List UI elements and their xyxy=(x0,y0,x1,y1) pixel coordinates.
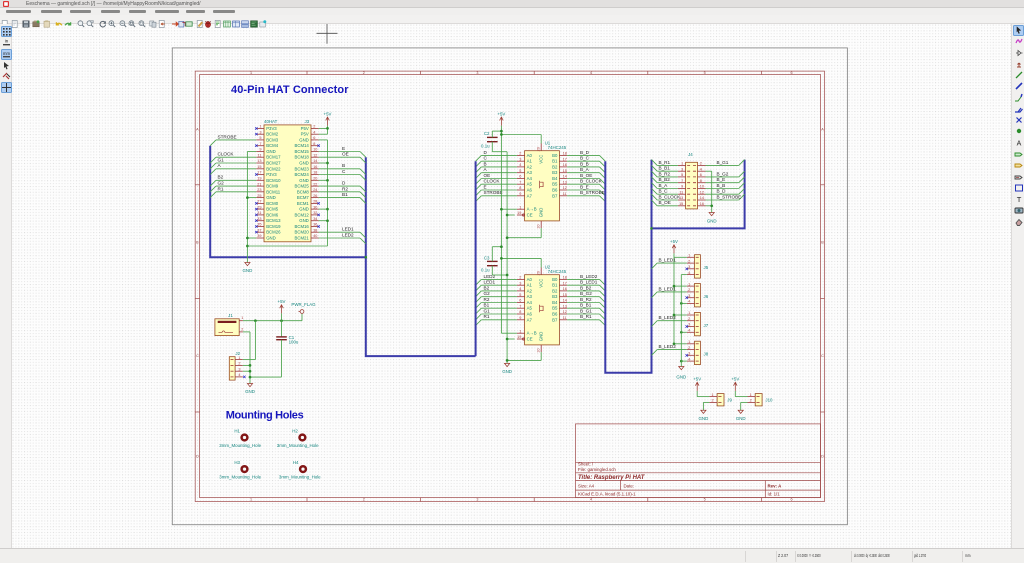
svg-text:BCM8: BCM8 xyxy=(297,189,310,194)
svg-text:GND: GND xyxy=(243,268,253,273)
svg-text:18: 18 xyxy=(563,275,567,279)
svg-text:5: 5 xyxy=(704,497,706,501)
svg-text:G2: G2 xyxy=(484,291,491,296)
svg-text:36: 36 xyxy=(313,222,317,226)
svg-text:18: 18 xyxy=(313,170,317,174)
svg-text:B2: B2 xyxy=(484,285,490,290)
svg-text:74HC245: 74HC245 xyxy=(548,268,567,273)
svg-text:P3V3: P3V3 xyxy=(266,125,277,130)
svg-text:B2: B2 xyxy=(218,174,224,179)
svg-text:BCM27: BCM27 xyxy=(266,160,281,165)
svg-text:C: C xyxy=(821,354,824,358)
svg-text:2: 2 xyxy=(363,497,365,501)
svg-text:1: 1 xyxy=(250,497,252,501)
svg-text:P3V3: P3V3 xyxy=(266,172,277,177)
svg-text:A7: A7 xyxy=(527,193,533,198)
svg-text:18: 18 xyxy=(563,151,567,155)
svg-text:B1: B1 xyxy=(342,192,348,197)
svg-text:KiCad E.D.A. kicad (5.1.10)-1: KiCad E.D.A. kicad (5.1.10)-1 xyxy=(578,491,636,496)
svg-text:A: A xyxy=(1016,140,1021,147)
svg-text:7: 7 xyxy=(519,180,521,184)
svg-text:A1: A1 xyxy=(527,158,533,163)
svg-text:33: 33 xyxy=(257,216,261,220)
svg-text:BCM18: BCM18 xyxy=(294,154,309,159)
svg-text:3: 3 xyxy=(259,130,261,134)
svg-text:2: 2 xyxy=(700,161,702,165)
svg-text:30: 30 xyxy=(313,205,317,209)
svg-text:4: 4 xyxy=(519,163,521,167)
svg-text:B_A: B_A xyxy=(580,167,590,172)
svg-text:5: 5 xyxy=(519,168,521,172)
svg-text:BCM9: BCM9 xyxy=(266,183,279,188)
svg-text:9: 9 xyxy=(519,316,521,320)
svg-text:G2: G2 xyxy=(218,180,225,185)
svg-text:GND: GND xyxy=(266,235,276,240)
svg-text:VCC: VCC xyxy=(539,154,544,163)
svg-text:LED2: LED2 xyxy=(484,273,496,278)
svg-text:CE: CE xyxy=(527,336,533,341)
svg-text:GND: GND xyxy=(266,149,276,154)
svg-text:H1: H1 xyxy=(234,428,240,433)
svg-text:B0: B0 xyxy=(552,276,558,281)
svg-text:23: 23 xyxy=(257,188,261,192)
svg-text:13: 13 xyxy=(257,159,261,163)
svg-text:B_CLOCK: B_CLOCK xyxy=(659,194,682,199)
svg-text:19: 19 xyxy=(517,211,521,215)
svg-text:A0: A0 xyxy=(527,276,533,281)
svg-text:Date:: Date: xyxy=(624,483,635,488)
svg-text:6: 6 xyxy=(790,497,792,501)
svg-text:B6: B6 xyxy=(552,311,558,316)
svg-text:2: 2 xyxy=(688,345,690,349)
svg-text:+5V: +5V xyxy=(670,239,678,244)
svg-text:27: 27 xyxy=(257,199,261,203)
svg-text:GND: GND xyxy=(299,218,309,223)
svg-text:H4: H4 xyxy=(293,459,299,464)
svg-text:A4: A4 xyxy=(527,300,533,305)
svg-text:37: 37 xyxy=(257,228,261,232)
svg-text:74HC245: 74HC245 xyxy=(548,144,567,149)
svg-text:1: 1 xyxy=(688,340,690,344)
svg-text:B_C: B_C xyxy=(659,188,669,193)
svg-text:C: C xyxy=(196,354,199,358)
svg-text:B_CLOCK: B_CLOCK xyxy=(580,178,603,183)
svg-text:B: B xyxy=(484,161,487,166)
svg-text:LED1: LED1 xyxy=(342,226,354,231)
svg-text:A1: A1 xyxy=(527,282,533,287)
svg-text:BCM10: BCM10 xyxy=(266,177,281,182)
svg-text:A3: A3 xyxy=(527,294,533,299)
svg-text:B_B: B_B xyxy=(580,161,589,166)
svg-text:29: 29 xyxy=(257,205,261,209)
svg-text:B_D: B_D xyxy=(580,149,590,154)
svg-text:BCM25: BCM25 xyxy=(294,183,309,188)
svg-text:1: 1 xyxy=(519,205,521,209)
svg-text:11: 11 xyxy=(258,153,262,157)
svg-text:BCM22: BCM22 xyxy=(266,166,281,171)
svg-text:J7: J7 xyxy=(704,322,709,327)
svg-text:2: 2 xyxy=(519,275,521,279)
svg-text:mm: mm xyxy=(3,50,10,55)
svg-text:H3: H3 xyxy=(234,459,240,464)
svg-text:10: 10 xyxy=(536,348,540,352)
svg-text:0.1u: 0.1u xyxy=(481,267,490,272)
svg-text:40: 40 xyxy=(313,234,317,238)
svg-text:14: 14 xyxy=(563,298,567,302)
svg-text:B_B2: B_B2 xyxy=(659,177,671,182)
svg-text:4: 4 xyxy=(313,130,315,134)
svg-text:2: 2 xyxy=(519,151,521,155)
svg-text:BCM3: BCM3 xyxy=(266,137,279,142)
svg-text:13: 13 xyxy=(563,304,567,308)
svg-text:B_R1: B_R1 xyxy=(659,159,671,164)
svg-text:4: 4 xyxy=(590,70,592,74)
svg-text:A→B: A→B xyxy=(527,206,537,211)
svg-text:2: 2 xyxy=(313,124,315,128)
svg-text:B4: B4 xyxy=(552,300,558,305)
svg-text:VCC: VCC xyxy=(539,278,544,287)
svg-text:B_D: B_D xyxy=(717,188,727,193)
svg-text:25: 25 xyxy=(257,193,261,197)
svg-text:13: 13 xyxy=(563,180,567,184)
svg-text:A2: A2 xyxy=(527,164,533,169)
svg-text:File: gamingled.sch: File: gamingled.sch xyxy=(578,466,616,471)
svg-text:+5V: +5V xyxy=(731,376,739,381)
svg-text:B_G1: B_G1 xyxy=(717,159,729,164)
svg-text:10: 10 xyxy=(700,184,704,188)
svg-text:3: 3 xyxy=(688,351,690,355)
svg-text:A2: A2 xyxy=(527,288,533,293)
svg-text:B_B2: B_B2 xyxy=(580,285,592,290)
svg-text:GND: GND xyxy=(676,374,686,379)
svg-text:Size: A4: Size: A4 xyxy=(578,483,595,488)
svg-text:7: 7 xyxy=(681,178,683,182)
svg-text:B_G1: B_G1 xyxy=(580,308,592,313)
svg-text:A4: A4 xyxy=(527,176,533,181)
svg-text:20: 20 xyxy=(313,176,317,180)
svg-text:B_LED1: B_LED1 xyxy=(659,286,677,291)
svg-text:B3: B3 xyxy=(552,294,558,299)
svg-text:B_LED2: B_LED2 xyxy=(580,273,598,278)
svg-text:BCM15: BCM15 xyxy=(294,149,309,154)
svg-text:GND: GND xyxy=(736,415,746,420)
svg-text:39: 39 xyxy=(257,234,261,238)
svg-text:G1: G1 xyxy=(218,157,225,162)
svg-text:+5V: +5V xyxy=(497,111,505,116)
svg-text:BCM1: BCM1 xyxy=(297,200,310,205)
svg-text:OE: OE xyxy=(484,172,491,177)
svg-text:2: 2 xyxy=(688,316,690,320)
svg-text:B_R1: B_R1 xyxy=(580,314,592,319)
svg-text:B5: B5 xyxy=(552,305,558,310)
svg-text:Title: Raspberry Pi HAT: Title: Raspberry Pi HAT xyxy=(578,474,646,480)
svg-text:16: 16 xyxy=(313,165,317,169)
svg-text:6: 6 xyxy=(790,70,792,74)
svg-text:21: 21 xyxy=(257,182,261,186)
svg-text:J3: J3 xyxy=(305,119,310,124)
svg-text:G1: G1 xyxy=(484,308,491,313)
svg-text:BCM23: BCM23 xyxy=(294,166,309,171)
svg-text:3: 3 xyxy=(688,293,690,297)
svg-text:B0: B0 xyxy=(552,152,558,157)
svg-text:14: 14 xyxy=(563,174,567,178)
svg-text:A3: A3 xyxy=(527,170,533,175)
svg-text:4: 4 xyxy=(688,328,690,332)
svg-text:8: 8 xyxy=(313,141,315,145)
svg-text:A6: A6 xyxy=(527,187,533,192)
svg-text:J8: J8 xyxy=(704,351,709,356)
svg-text:GND: GND xyxy=(699,415,709,420)
svg-text:A5: A5 xyxy=(527,305,533,310)
svg-text:10: 10 xyxy=(536,224,540,228)
svg-text:CLOCK: CLOCK xyxy=(484,178,501,183)
svg-text:B3: B3 xyxy=(552,170,558,175)
svg-text:BCM4: BCM4 xyxy=(266,143,279,148)
svg-text:3: 3 xyxy=(238,367,240,371)
svg-text:A7: A7 xyxy=(527,317,533,322)
svg-text:16: 16 xyxy=(700,202,704,206)
svg-text:B6: B6 xyxy=(552,187,558,192)
svg-text:40HAT: 40HAT xyxy=(264,119,278,124)
svg-text:15: 15 xyxy=(257,165,261,169)
svg-text:10: 10 xyxy=(313,147,317,151)
svg-text:B_C: B_C xyxy=(580,155,590,160)
svg-text:5: 5 xyxy=(681,173,683,177)
svg-text:2: 2 xyxy=(688,259,690,263)
svg-text:J4: J4 xyxy=(688,152,693,157)
svg-text:31: 31 xyxy=(257,211,261,215)
svg-text:38: 38 xyxy=(313,228,317,232)
svg-text:BCM14: BCM14 xyxy=(294,143,309,148)
svg-text:R2: R2 xyxy=(484,296,490,301)
svg-text:35: 35 xyxy=(257,222,261,226)
svg-text:P5V: P5V xyxy=(301,131,309,136)
svg-text:in: in xyxy=(4,39,8,44)
svg-text:B_STROBE: B_STROBE xyxy=(580,190,605,195)
svg-text:2: 2 xyxy=(363,70,365,74)
svg-text:B_B1: B_B1 xyxy=(580,302,592,307)
svg-text:14: 14 xyxy=(313,159,317,163)
svg-text:A6: A6 xyxy=(527,311,533,316)
svg-text:B2: B2 xyxy=(552,164,558,169)
svg-text:B_R2: B_R2 xyxy=(580,296,592,301)
svg-text:C3: C3 xyxy=(484,255,490,260)
svg-text:16: 16 xyxy=(563,287,567,291)
svg-text:CE: CE xyxy=(527,212,533,217)
svg-text:20: 20 xyxy=(536,271,540,275)
svg-text:1: 1 xyxy=(711,392,713,396)
svg-text:STROBE: STROBE xyxy=(218,134,237,139)
svg-text:H2: H2 xyxy=(292,428,298,433)
svg-text:6: 6 xyxy=(313,136,315,140)
svg-text:4: 4 xyxy=(688,270,690,274)
svg-text:3mm_Mounting_Hole: 3mm_Mounting_Hole xyxy=(277,443,319,448)
svg-text:B_OE: B_OE xyxy=(659,200,671,205)
svg-text:3: 3 xyxy=(681,167,683,171)
svg-text:D: D xyxy=(821,454,824,458)
svg-text:2: 2 xyxy=(711,398,713,402)
svg-text:15: 15 xyxy=(679,202,683,206)
svg-text:8: 8 xyxy=(519,310,521,314)
svg-text:B_OE: B_OE xyxy=(580,172,592,177)
svg-text:24: 24 xyxy=(313,188,317,192)
svg-text:GND: GND xyxy=(539,207,544,217)
svg-text:LED2: LED2 xyxy=(342,232,354,237)
svg-text:A0: A0 xyxy=(527,152,533,157)
svg-text:LED1: LED1 xyxy=(484,279,496,284)
svg-text:B: B xyxy=(342,163,345,168)
svg-text:BCM6: BCM6 xyxy=(266,212,279,217)
svg-text:11: 11 xyxy=(563,316,567,320)
svg-text:J1: J1 xyxy=(228,312,233,317)
svg-text:B1: B1 xyxy=(552,282,558,287)
svg-text:1: 1 xyxy=(259,124,261,128)
svg-text:3: 3 xyxy=(688,265,690,269)
svg-text:6: 6 xyxy=(700,173,702,177)
svg-text:8: 8 xyxy=(519,186,521,190)
svg-text:B_A: B_A xyxy=(659,182,669,187)
svg-text:3: 3 xyxy=(476,70,478,74)
svg-text:+5V: +5V xyxy=(324,111,332,116)
svg-text:7: 7 xyxy=(519,304,521,308)
svg-text:A5: A5 xyxy=(527,181,533,186)
svg-text:D: D xyxy=(196,454,199,458)
svg-text:B_R2: B_R2 xyxy=(659,171,671,176)
svg-text:4: 4 xyxy=(688,299,690,303)
svg-text:BCM12: BCM12 xyxy=(294,212,309,217)
svg-text:3mm_Mounting_Hole: 3mm_Mounting_Hole xyxy=(279,474,321,479)
svg-text:19: 19 xyxy=(517,335,521,339)
svg-text:B7: B7 xyxy=(552,317,558,322)
svg-text:1: 1 xyxy=(688,311,690,315)
svg-text:4: 4 xyxy=(519,287,521,291)
svg-text:7: 7 xyxy=(259,141,261,145)
svg-text:0.1u: 0.1u xyxy=(481,143,490,148)
svg-text:J6: J6 xyxy=(704,294,709,299)
svg-text:B_E: B_E xyxy=(580,184,589,189)
svg-text:J9: J9 xyxy=(727,397,732,402)
svg-text:9: 9 xyxy=(259,147,261,151)
svg-text:17: 17 xyxy=(563,281,567,285)
svg-text:17: 17 xyxy=(563,157,567,161)
svg-text:28: 28 xyxy=(313,199,317,203)
svg-text:Mounting Holes: Mounting Holes xyxy=(226,409,304,421)
svg-text:BCM19: BCM19 xyxy=(266,223,281,228)
svg-text:3: 3 xyxy=(476,497,478,501)
svg-text:T: T xyxy=(1016,195,1021,204)
svg-text:22: 22 xyxy=(313,182,317,186)
svg-text:B2: B2 xyxy=(552,288,558,293)
svg-text:BCM13: BCM13 xyxy=(266,218,281,223)
svg-text:A→B: A→B xyxy=(527,330,537,335)
svg-text:CLOCK: CLOCK xyxy=(218,151,235,156)
svg-text:4: 4 xyxy=(238,373,240,377)
svg-text:17: 17 xyxy=(257,170,261,174)
svg-text:BCM20: BCM20 xyxy=(294,229,309,234)
svg-text:1: 1 xyxy=(238,355,240,359)
svg-text:B_LED2: B_LED2 xyxy=(659,344,677,349)
svg-text:R1: R1 xyxy=(218,186,224,191)
svg-text:J5: J5 xyxy=(704,265,709,270)
svg-text:P5V: P5V xyxy=(301,125,309,130)
svg-text:GND: GND xyxy=(707,218,717,223)
svg-text:3mm_Mounting_Hole: 3mm_Mounting_Hole xyxy=(219,443,261,448)
svg-text:5: 5 xyxy=(259,136,261,140)
svg-text:5: 5 xyxy=(704,70,706,74)
svg-text:R1: R1 xyxy=(484,314,490,319)
svg-text:4: 4 xyxy=(688,357,690,361)
svg-text:B5: B5 xyxy=(552,181,558,186)
svg-text:PWR_FLAG: PWR_FLAG xyxy=(291,302,316,307)
svg-text:GND: GND xyxy=(266,195,276,200)
svg-text:1: 1 xyxy=(750,392,752,396)
svg-text:11: 11 xyxy=(563,192,567,196)
svg-text:1: 1 xyxy=(250,70,252,74)
svg-text:B_E: B_E xyxy=(717,177,726,182)
svg-text:C2: C2 xyxy=(484,131,490,136)
svg-text:B1: B1 xyxy=(552,158,558,163)
svg-text:15: 15 xyxy=(563,168,567,172)
svg-text:40-Pin HAT Connector: 40-Pin HAT Connector xyxy=(231,84,349,96)
svg-text:E: E xyxy=(484,184,487,189)
svg-text:GND: GND xyxy=(299,160,309,165)
svg-text:BCM24: BCM24 xyxy=(294,172,309,177)
svg-text:B_LED1: B_LED1 xyxy=(580,279,598,284)
svg-text:Id: 1/1: Id: 1/1 xyxy=(768,491,781,496)
svg-text:B1: B1 xyxy=(484,302,490,307)
svg-text:B4: B4 xyxy=(552,176,558,181)
svg-text:15: 15 xyxy=(563,292,567,296)
svg-text:Rev: A: Rev: A xyxy=(768,483,783,488)
svg-text:BCM17: BCM17 xyxy=(266,154,281,159)
svg-text:B_G2: B_G2 xyxy=(580,291,592,296)
svg-text:B_LED2: B_LED2 xyxy=(659,315,677,320)
svg-text:12: 12 xyxy=(700,190,704,194)
svg-text:OE: OE xyxy=(342,151,349,156)
svg-text:BCM7: BCM7 xyxy=(297,195,310,200)
svg-text:3: 3 xyxy=(688,322,690,326)
svg-text:B_G2: B_G2 xyxy=(717,171,729,176)
svg-text:GND: GND xyxy=(245,389,255,394)
svg-text:B_LED1: B_LED1 xyxy=(659,257,677,262)
svg-text:32: 32 xyxy=(313,211,317,215)
svg-text:12: 12 xyxy=(563,186,567,190)
svg-text:BCM5: BCM5 xyxy=(266,206,279,211)
svg-text:4: 4 xyxy=(700,167,702,171)
svg-text:6: 6 xyxy=(519,298,521,302)
svg-text:20: 20 xyxy=(536,147,540,151)
svg-text:1: 1 xyxy=(241,316,243,320)
svg-text:3: 3 xyxy=(519,281,521,285)
svg-text:BCM11: BCM11 xyxy=(266,189,281,194)
svg-text:B7: B7 xyxy=(552,193,558,198)
svg-text:+5V: +5V xyxy=(278,299,286,304)
svg-text:3: 3 xyxy=(519,157,521,161)
svg-text:100u: 100u xyxy=(289,339,299,344)
svg-text:3mm_Mounting_Hole: 3mm_Mounting_Hole xyxy=(219,474,261,479)
svg-text:R2: R2 xyxy=(342,186,348,191)
svg-text:GND: GND xyxy=(299,177,309,182)
svg-text:BCM26: BCM26 xyxy=(266,229,281,234)
svg-text:2: 2 xyxy=(750,398,752,402)
svg-text:8: 8 xyxy=(700,178,702,182)
svg-text:GND: GND xyxy=(502,369,512,374)
svg-text:1: 1 xyxy=(688,282,690,286)
svg-text:34: 34 xyxy=(313,216,317,220)
svg-text:9: 9 xyxy=(519,192,521,196)
svg-text:GND: GND xyxy=(539,331,544,341)
svg-text:6: 6 xyxy=(519,174,521,178)
